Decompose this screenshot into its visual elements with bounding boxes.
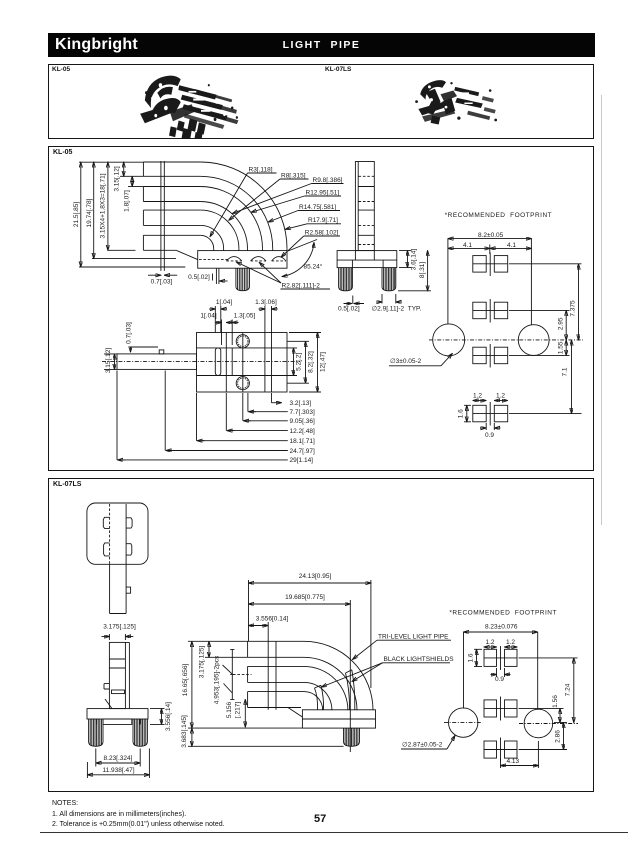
svg-text:7.1: 7.1 (562, 367, 569, 376)
dimension 0.7[.03] top view (126, 322, 158, 352)
dimension 1.3[.05] lower (232, 313, 255, 346)
head clip left upper (103, 517, 109, 528)
dimension 3.15X4+1.8X3=18[.71] (100, 162, 136, 250)
dimension 1.3[.06] upper (255, 299, 278, 333)
photo box label KL-05 (52, 66, 70, 73)
svg-text:1[.04]: 1[.04] (216, 299, 232, 306)
svg-text:0.7[.03]: 0.7[.03] (151, 279, 173, 286)
svg-text:18.1[.71]: 18.1[.71] (290, 438, 315, 445)
photo box (48, 64, 594, 139)
header black bar (48, 33, 595, 57)
dimension 0.5[.02] front (338, 296, 364, 313)
fp dim 1.56 (519, 695, 564, 723)
front view pin right (133, 719, 147, 746)
footprint dim 1.2 1.2 (473, 392, 508, 400)
left dim 3.683[.145] (181, 715, 343, 748)
left dim 3.175[.125] (199, 641, 248, 678)
KL-05 drawing panel border (48, 146, 594, 471)
dimension 21.5[.85] (73, 162, 185, 267)
footprint pad row 1 (473, 253, 508, 277)
svg-text:16.65[.656]: 16.65[.656] (182, 664, 189, 697)
footprint dim 4.1 4.1 (448, 242, 532, 254)
svg-text:7.24: 7.24 (565, 683, 572, 696)
dimension 1[.04] upper (209, 299, 232, 333)
front view base (87, 709, 148, 725)
svg-text:29[1.14]: 29[1.14] (290, 457, 314, 464)
svg-text:12.2[.48]: 12.2[.48] (290, 428, 315, 435)
side view pin (236, 268, 250, 291)
footprint dim 7.375 (509, 264, 582, 340)
svg-text:0.7[.03]: 0.7[.03] (126, 322, 133, 344)
svg-text:3.683[.145]: 3.683[.145] (181, 715, 188, 748)
svg-text:0.9: 0.9 (495, 676, 504, 683)
front view pin right (382, 268, 396, 291)
Kingbright logo text (55, 36, 138, 54)
footprint dim 7.1 (509, 340, 582, 414)
svg-text:3.175[.125]: 3.175[.125] (199, 646, 206, 679)
dimension 3.15[.12] pipe height (114, 162, 144, 191)
footprint hole circles (429, 324, 583, 356)
svg-text:4.1: 4.1 (463, 242, 472, 249)
front view column (355, 162, 374, 251)
svg-text:R14.75[.581]: R14.75[.581] (299, 204, 336, 211)
svg-text:1.2: 1.2 (496, 392, 505, 399)
svg-text:R12.95[.51]: R12.95[.51] (306, 189, 340, 196)
radius label R14.75[.581] (268, 204, 340, 222)
fp dim 8.23 tol (464, 623, 538, 709)
stack dimension 24.7[.97] (165, 371, 315, 456)
svg-text:8.23±0.076: 8.23±0.076 (485, 623, 518, 630)
dim 3.556[0.14] (249, 615, 289, 641)
top view head (87, 503, 148, 614)
head clip left lower (104, 543, 110, 556)
svg-text:R8[.315]: R8[.315] (281, 172, 306, 179)
svg-text:1.3[.05]: 1.3[.05] (234, 313, 256, 320)
svg-text:2.86: 2.86 (555, 730, 562, 743)
svg-text:0.5[.02]: 0.5[.02] (188, 274, 210, 281)
radius label R12.95[.51] (251, 189, 341, 212)
dimension 1.8[.07] gap (124, 176, 144, 212)
svg-text:1[.04]: 1[.04] (200, 313, 216, 320)
dimension 3.15[.12] top view (104, 348, 117, 373)
svg-text:7.375: 7.375 (570, 300, 577, 317)
dimension 8.2[.32] (287, 341, 315, 383)
head clip right lower (126, 544, 132, 555)
stack dimension 18.1[.71] (197, 393, 315, 445)
dim 24.13[0.95] (249, 573, 371, 688)
svg-text:11.938[.47]: 11.938[.47] (102, 767, 134, 774)
svg-text:8.23[.324]: 8.23[.324] (104, 755, 133, 762)
svg-text:24.7[.97]: 24.7[.97] (290, 448, 315, 455)
dimension 2.9 pins (372, 294, 422, 313)
front view pin left (339, 268, 353, 291)
top view knurled circles (236, 335, 249, 390)
KL-05 drawing (48, 146, 595, 472)
side view pipe arcs (200, 162, 287, 251)
dimension 12[.47] (289, 333, 327, 393)
svg-text:4.953[.195]-2pcs: 4.953[.195]-2pcs (214, 655, 221, 704)
svg-text:R17.9[.71]: R17.9[.71] (308, 217, 338, 224)
side view post (268, 641, 276, 710)
fp hole label dia 2.87 (401, 736, 455, 750)
dimension 3.6[.14] (399, 248, 418, 270)
fp middle pads (484, 697, 517, 721)
svg-text:1.2: 1.2 (486, 639, 495, 646)
bottom rule (40, 832, 628, 833)
notes (52, 799, 225, 831)
side view base plate (288, 708, 376, 729)
fp dim 4.13 (501, 741, 539, 768)
svg-text:R3[.118]: R3[.118] (249, 166, 273, 173)
label BLACK LIGHTSHIELDS (322, 656, 455, 687)
angle 85.24 (282, 240, 323, 277)
svg-text:1.3[.06]: 1.3[.06] (255, 299, 277, 306)
svg-text:TRI-LEVEL LIGHT PIPE: TRI-LEVEL LIGHT PIPE (378, 633, 449, 640)
radius label R9.8[.386] (233, 177, 344, 214)
svg-text:R2.58[.102]: R2.58[.102] (305, 229, 339, 236)
side view arcs (304, 641, 373, 710)
svg-text:3.15[.12]: 3.15[.12] (105, 348, 112, 373)
faint scan line right (601, 95, 602, 525)
fp top pads (484, 646, 517, 670)
footprint hole label (389, 354, 452, 366)
stack dimension 3.2[.13] (272, 393, 312, 407)
left dim 16.65[.656] (182, 641, 302, 728)
dimension 0.5[.02] standoff (188, 268, 227, 284)
dim 19.685[0.775] (249, 594, 351, 752)
dimension 1[.04] lower (200, 313, 232, 346)
left dim 4.953[.195]-2pcs (214, 649, 252, 704)
radius label R3[.118] (210, 166, 277, 236)
LIGHT PIPE title (48, 39, 595, 51)
front view dim 3.175[.125] (102, 624, 136, 641)
svg-text:2.95: 2.95 (558, 317, 565, 330)
dimension 0.7[.03] post (148, 275, 177, 285)
svg-text:21.5[.85]: 21.5[.85] (73, 202, 80, 227)
svg-text:1.56: 1.56 (552, 695, 559, 708)
svg-text:0.9: 0.9 (485, 432, 494, 439)
footprint bottom pads (473, 402, 508, 426)
stack dimension 7.7[.303] (248, 393, 315, 416)
svg-text:8.2±0.05: 8.2±0.05 (478, 232, 504, 239)
svg-text:3.175[.125]: 3.175[.125] (103, 624, 136, 631)
KL-07LS panel label (53, 481, 81, 488)
stack dimension 9.05[.36] (243, 393, 315, 425)
svg-text:1.55: 1.55 (558, 341, 565, 354)
svg-text:4.13: 4.13 (507, 758, 520, 765)
footprint dim 0.9 (480, 423, 501, 439)
svg-text:3.556[.14]: 3.556[.14] (165, 702, 172, 731)
svg-text:85.24°: 85.24° (304, 262, 323, 270)
svg-text:1.2: 1.2 (473, 392, 482, 399)
front view pin left (89, 719, 103, 746)
svg-text:8[.31]: 8[.31] (419, 262, 426, 278)
base plate notches R2.82 (226, 257, 286, 261)
column side tab (126, 587, 131, 593)
front view column (104, 642, 129, 708)
svg-text:*RECOMMENDED FOOTPRINT: *RECOMMENDED FOOTPRINT (449, 609, 557, 616)
footprint pad row 2 (473, 299, 508, 323)
svg-text:19.74[.78]: 19.74[.78] (86, 198, 93, 227)
svg-text:∅2.87±0.05-2: ∅2.87±0.05-2 (402, 741, 443, 748)
fp dim 2.86 (519, 723, 568, 750)
svg-text:1.2: 1.2 (506, 639, 515, 646)
head clip right upper (126, 518, 132, 528)
label R2.82[.111]-2 (236, 262, 330, 289)
svg-text:19.685[0.775]: 19.685[0.775] (285, 594, 325, 601)
fp dim 1.2 1.2 top (484, 639, 517, 647)
svg-text:[.217]: [.217] (235, 702, 242, 718)
svg-text:1.8[.07]: 1.8[.07] (124, 190, 131, 212)
left dim 5.156 [.217] (226, 699, 245, 727)
fp dim 7.24 (519, 658, 578, 723)
footprint pad row 3 (473, 344, 508, 368)
svg-text:1.6: 1.6 (468, 653, 475, 662)
page number 57 (314, 813, 326, 825)
svg-text:4.1: 4.1 (507, 242, 516, 249)
photo of KL-05 part (95, 68, 275, 138)
svg-text:*RECOMMENDED FOOTPRINT: *RECOMMENDED FOOTPRINT (445, 212, 553, 219)
svg-text:BLACK LIGHTSHIELDS: BLACK LIGHTSHIELDS (384, 656, 455, 663)
svg-text:∅3±0.05-2: ∅3±0.05-2 (390, 358, 422, 365)
side view vertical post (161, 161, 164, 271)
KL-05 panel label (53, 149, 72, 156)
footprint dim 8.2±0.05 (448, 232, 532, 325)
fp bottom pads (484, 738, 517, 762)
footprint dim 1.55 (509, 340, 570, 355)
stack dimension 12.2[.48] (226, 393, 315, 435)
svg-text:7.7[.303]: 7.7[.303] (290, 409, 315, 416)
svg-text:3.6[.14]: 3.6[.14] (411, 248, 418, 270)
svg-text:8.2[.32]: 8.2[.32] (308, 351, 315, 373)
side view pipes (248, 641, 304, 707)
footprint dim 1.6 (458, 405, 471, 422)
photo box label KL-07LS (325, 66, 351, 73)
side view pin (344, 728, 360, 746)
fp dim 1.6 (468, 649, 482, 666)
black lightshield wedges (315, 670, 355, 710)
KL-07LS drawing (48, 478, 595, 792)
fp circles (444, 708, 578, 738)
svg-text:3.2[.13]: 3.2[.13] (290, 400, 312, 407)
top view arm (102, 350, 300, 370)
svg-text:3.556[0.14]: 3.556[0.14] (256, 615, 289, 622)
svg-text:∅2.9[.11]-2 TYP.: ∅2.9[.11]-2 TYP. (372, 306, 422, 313)
radius label R17.9[.71] (285, 217, 341, 229)
dimension 19.74[.78] (86, 162, 176, 258)
svg-text:R2.82[.111]-2: R2.82[.111]-2 (282, 282, 321, 289)
fp dim 0.9 (491, 668, 511, 683)
radius label R8[.315] (229, 172, 309, 220)
svg-text:3.15[.12]: 3.15[.12] (114, 166, 121, 191)
KL-07LS drawing panel border (48, 478, 594, 792)
label TRI-LEVEL LIGHT PIPE (353, 633, 452, 659)
side view pipe bars (143, 162, 200, 250)
svg-text:3.15X4+1.8X3=18[.71]: 3.15X4+1.8X3=18[.71] (100, 173, 107, 238)
svg-text:24.13[0.95]: 24.13[0.95] (299, 573, 332, 580)
footprint dim 2.95 (509, 310, 570, 340)
front dim 3.556[.14] (150, 702, 172, 731)
svg-text:5.156: 5.156 (226, 701, 233, 718)
svg-text:5.2[.2]: 5.2[.2] (296, 353, 303, 371)
front view base (337, 251, 397, 268)
top view body (197, 333, 288, 393)
stack dimension 29[1.14] (117, 371, 313, 465)
front dim 8.23[.324] (96, 749, 140, 767)
dimension 8[.31] (398, 251, 431, 291)
side view base plate (176, 250, 287, 268)
svg-text:0.5[.02]: 0.5[.02] (338, 306, 360, 313)
radius label R2.58[.102] (281, 229, 340, 257)
svg-text:1.6: 1.6 (458, 409, 465, 418)
photo of KL-07LS part (400, 70, 515, 132)
dimension 5.2[.2] (287, 348, 303, 376)
svg-text:12[.47]: 12[.47] (320, 352, 327, 372)
front dim 11.938[.47] (87, 749, 149, 779)
svg-text:R9.8[.386]: R9.8[.386] (313, 177, 343, 184)
svg-text:9.05[.36]: 9.05[.36] (290, 418, 315, 425)
